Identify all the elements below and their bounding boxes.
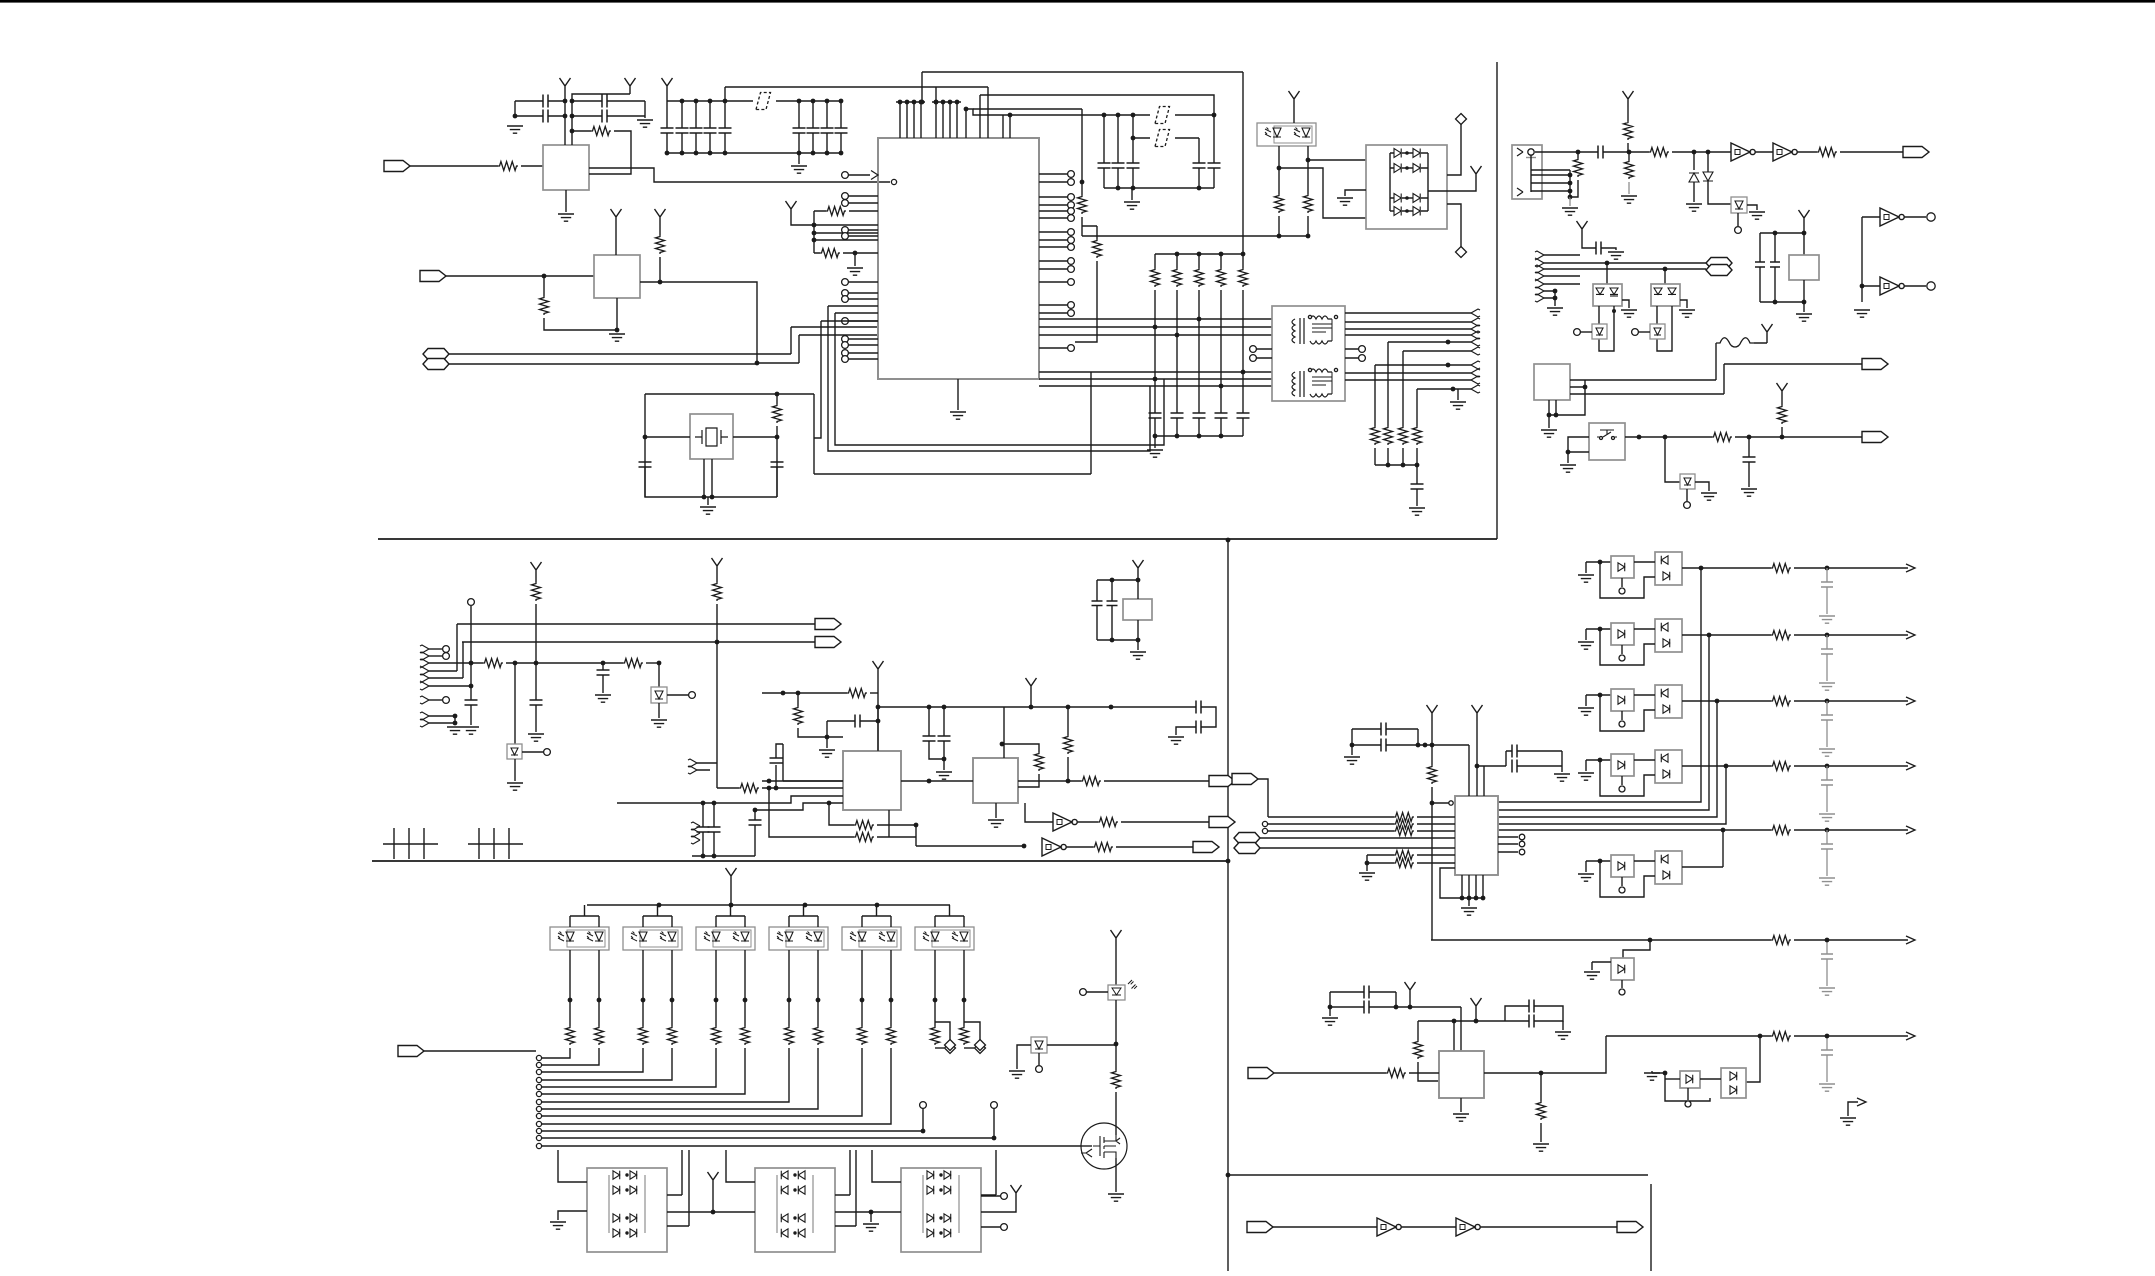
wire col9 a xyxy=(890,1000,892,1026)
wire row2 out xyxy=(1794,634,1908,636)
resistor RR4 xyxy=(1771,762,1791,771)
fork in row3 xyxy=(1535,265,1544,273)
junction c2a xyxy=(570,99,575,104)
junction c2b xyxy=(570,114,575,119)
wire vdd2 stem xyxy=(716,574,718,582)
antenna VCC10 xyxy=(1799,210,1810,226)
wire ri5 lead xyxy=(1409,1072,1439,1074)
wire bank col 6 xyxy=(798,101,800,128)
junction db12 xyxy=(793,1216,796,1219)
resistor R14 xyxy=(1239,268,1248,287)
wire ms f xyxy=(1840,151,1903,153)
pin bus a xyxy=(443,646,450,653)
ground GR3 xyxy=(1578,708,1594,715)
wire capB right v xyxy=(1417,729,1419,745)
wire r46 tail xyxy=(1781,427,1783,437)
capacitor C72 xyxy=(597,670,610,675)
junction md c xyxy=(469,661,474,666)
wire rescol bottom rail xyxy=(1155,435,1243,437)
junction or5 in xyxy=(1598,859,1603,864)
wire sw zener drop xyxy=(1665,437,1680,482)
wire u10 bottom stubs xyxy=(1549,400,1556,415)
resistor R77 xyxy=(814,1026,823,1045)
zener VR1 box xyxy=(1731,197,1747,213)
junction hc xyxy=(876,719,881,724)
wire rv3 tail xyxy=(1540,1123,1542,1142)
antenna VR-B xyxy=(1472,705,1483,721)
pin TPb xyxy=(1927,282,1935,290)
wire VCC4 stub xyxy=(659,225,661,235)
wire vr5 drop xyxy=(514,663,516,744)
wire capcol 2 low xyxy=(1117,168,1119,188)
crosshatch group line x468 xyxy=(468,843,523,845)
antenna VDD4 xyxy=(1026,678,1037,694)
wire cap group bottom rail xyxy=(1104,187,1214,189)
optocoupler PC3 xyxy=(623,927,682,950)
wire bf out b xyxy=(1904,285,1926,287)
ground GRow5 xyxy=(1819,988,1835,995)
diode D3 xyxy=(1394,164,1401,173)
wire rescol 2 b xyxy=(1176,290,1178,413)
wire pc6 leg b xyxy=(890,950,892,1000)
junction bank t9 xyxy=(839,99,844,104)
wire out1 drop xyxy=(429,624,457,671)
wire buf rail xyxy=(1861,217,1863,302)
junction row3 o xyxy=(1825,699,1830,704)
wire bank col 3 low xyxy=(695,133,697,153)
wire caprow3 stub xyxy=(1826,766,1828,780)
ground G21 xyxy=(1621,310,1637,317)
wire hcap right xyxy=(860,720,878,722)
junction u13 a xyxy=(1000,742,1005,747)
diode pair DPB2 xyxy=(1721,1068,1746,1098)
optocoupler PC6 xyxy=(842,927,901,950)
wire U3-L11 lead xyxy=(848,344,878,346)
wire tp col b stub xyxy=(993,1108,995,1138)
wire rescol gnd stub xyxy=(1154,436,1156,448)
ground G12 xyxy=(1450,402,1466,409)
fork To10 xyxy=(1471,385,1480,393)
wire vr4 bottom xyxy=(1686,489,1688,501)
wire bank col 1 xyxy=(666,101,668,128)
transformer T1 core xyxy=(1300,318,1304,344)
wire u12 in2 res xyxy=(717,787,739,789)
opto OR2 emitter box xyxy=(1611,623,1634,645)
wire u20 gnd stub xyxy=(1460,1098,1462,1112)
wire capcol 5 xyxy=(1213,115,1215,163)
wire vcc5 stem xyxy=(666,94,668,101)
wire vb2 stem xyxy=(981,1201,1016,1212)
wire u18 toppin c xyxy=(1483,766,1485,796)
wire c75 stub xyxy=(928,707,930,736)
zener VR2 box xyxy=(1592,324,1607,339)
ground GRow2 xyxy=(1819,749,1835,756)
wire vdd1 stem xyxy=(535,578,537,582)
wire top pin 1 xyxy=(899,102,901,138)
ground G24 xyxy=(1560,465,1576,472)
capacitor CU2 xyxy=(1512,760,1517,773)
opto OR1 emitter box xyxy=(1611,556,1634,578)
wire bank col 3 xyxy=(695,101,697,128)
antenna VM1 xyxy=(1111,930,1122,946)
junction dpb xyxy=(1663,1071,1668,1076)
junction to10 xyxy=(1451,387,1456,392)
pin vr2 xyxy=(1574,329,1581,336)
crystal X1 box xyxy=(690,414,733,459)
wire U3-R14 lead xyxy=(1039,312,1068,314)
resistor R60 xyxy=(854,821,874,830)
wire in4 line xyxy=(1367,855,1394,863)
ground G44 xyxy=(1108,1194,1124,1201)
junction bridge 1 xyxy=(1405,151,1409,155)
wire capcol 1 xyxy=(1103,115,1105,163)
wire opto6 drop xyxy=(1623,940,1650,958)
arrow row6 xyxy=(1906,936,1915,944)
fork bus y656 xyxy=(420,652,429,660)
pin in1 xyxy=(1262,828,1267,833)
wire U3-R8 lead xyxy=(1039,239,1068,241)
opto OR3 emitter box xyxy=(1611,689,1634,711)
wire rail1432 b xyxy=(1431,787,1433,940)
junction rb2 xyxy=(1197,434,1202,439)
ic U10 xyxy=(1534,364,1570,400)
wire Tv2 low xyxy=(1387,448,1389,465)
junction y115 b xyxy=(1102,113,1107,118)
wire res1418 xyxy=(1417,1021,1419,1040)
wire c81 tail xyxy=(754,825,756,856)
pin OR4 xyxy=(1619,786,1625,792)
junction c2c xyxy=(570,129,575,134)
pin vr3 xyxy=(1632,329,1639,336)
diode OR4f xyxy=(1663,770,1670,778)
buffer U14 xyxy=(1053,813,1077,831)
ground GR16 xyxy=(1359,873,1375,880)
resistor R50 xyxy=(532,582,541,601)
junction u18 t1 xyxy=(1475,764,1480,769)
diode DBD00b xyxy=(630,1171,637,1179)
wire pb a to bridge xyxy=(1308,159,1366,161)
wire capC2 l2 xyxy=(1505,1020,1529,1022)
capacitor C70 xyxy=(530,700,543,705)
wire row 255 xyxy=(1544,254,1580,256)
junction on divider low xyxy=(1226,1173,1231,1178)
diode OR2d xyxy=(1618,630,1625,638)
wire r55 stub xyxy=(1067,707,1069,735)
wire fan 4 xyxy=(541,1048,716,1087)
resistor R7 xyxy=(820,249,840,258)
junction on divider xyxy=(1226,538,1231,543)
antenna VLED xyxy=(726,868,737,884)
diode D21 xyxy=(1703,172,1713,181)
diamond TDa xyxy=(945,1043,956,1054)
wire U3-L2 lead xyxy=(848,195,878,197)
wire capcol 3 xyxy=(1132,115,1134,163)
junction row6 o xyxy=(1825,938,1830,943)
antenna VB-A xyxy=(1405,982,1416,998)
wire capcol 2 xyxy=(1117,115,1119,163)
wire mi stub xyxy=(697,763,717,770)
fork bus y678 xyxy=(420,674,429,682)
wire VCC3 to U2 xyxy=(615,225,617,255)
capacitor C10 xyxy=(1098,163,1111,168)
junction u10 g1 xyxy=(1547,413,1552,418)
resistor R71 xyxy=(595,1026,604,1045)
wire net TD4 xyxy=(1039,371,1272,373)
diode bridge DB3 xyxy=(755,1168,835,1252)
resistor RV3 xyxy=(1537,1101,1546,1120)
crosshatch tick 383-2 xyxy=(423,828,425,859)
wire bus v1 xyxy=(1498,568,1701,802)
junction in4 a xyxy=(753,808,758,813)
wire u16 bot stub xyxy=(1137,620,1139,640)
wire out2 drop xyxy=(429,642,463,678)
junction bank b3 xyxy=(708,151,713,156)
wire bank gnd stub xyxy=(798,153,800,164)
wire T res bottom rail xyxy=(1375,464,1417,466)
pin u18r0 xyxy=(1519,834,1525,840)
wire in4 lead2 xyxy=(1417,854,1455,856)
pin U3-L6 xyxy=(842,290,849,297)
divider wire vertical left of right section xyxy=(1227,540,1229,1271)
pin U3-L2 xyxy=(842,193,849,200)
transformer T1 primary coil xyxy=(1292,319,1295,343)
junction J1-197 xyxy=(1568,195,1573,200)
diode OR1d xyxy=(1618,563,1625,571)
junction u13 out xyxy=(1066,779,1071,784)
pin TPa xyxy=(1927,213,1935,221)
wire or5 gnd stub xyxy=(1586,861,1611,872)
junction top pin 9b xyxy=(934,100,939,105)
wire fan 3 xyxy=(541,1048,672,1080)
capacitor C61 xyxy=(1755,262,1765,267)
ground GR18 xyxy=(1322,1018,1338,1025)
wire col1 a xyxy=(598,1000,600,1026)
junction rb1 xyxy=(1175,434,1180,439)
junction tr b xyxy=(1401,463,1406,468)
wire rc4 down xyxy=(1075,261,1097,342)
wire fan 10 xyxy=(541,1130,923,1132)
wire or2 gnd stub xyxy=(1586,629,1611,640)
diode D2 xyxy=(1413,149,1420,158)
junction in2 b xyxy=(774,786,779,791)
wire R5 to xtal xyxy=(776,426,778,497)
buffer U5 xyxy=(1731,143,1755,161)
pin u18r2 xyxy=(1519,849,1525,855)
wire vdd1 col xyxy=(535,604,537,700)
junction or1 bus xyxy=(1699,566,1704,571)
pin sw a xyxy=(1600,437,1603,440)
junction cl d xyxy=(1773,300,1778,305)
wire main sig c xyxy=(1672,151,1731,153)
diode DPB1a xyxy=(1686,1075,1693,1083)
wire dpb link xyxy=(1700,1078,1721,1080)
junction bridge 3 xyxy=(1405,196,1409,200)
chevron into U3 xyxy=(871,171,878,180)
resistor R43 xyxy=(1624,121,1633,140)
wire U3-L5 lead xyxy=(848,235,878,237)
pin U3-L11 xyxy=(842,342,849,349)
diode DBD10a xyxy=(781,1171,788,1179)
diode DBD12b xyxy=(798,1214,805,1222)
opto OR4 emitter box xyxy=(1611,754,1634,776)
wire bank top rail xyxy=(667,100,841,102)
junction bridge 4 xyxy=(1405,209,1409,213)
junction or2 in xyxy=(1598,627,1603,632)
junction db03 xyxy=(625,1231,628,1234)
wire pc3 leg b xyxy=(671,950,673,1000)
wire r60 drop xyxy=(829,803,854,825)
resistor R41b xyxy=(1625,160,1634,179)
wire rescol 3 a xyxy=(1198,254,1200,268)
junction u10 xyxy=(1583,385,1588,390)
junction u16 a xyxy=(1110,578,1115,583)
capacitor CRow1 xyxy=(1821,649,1833,654)
wire xtal right xyxy=(776,394,778,404)
wire sw left gnd stub xyxy=(1567,452,1569,463)
junction capC r2 xyxy=(1408,1005,1413,1010)
resistor RR1 xyxy=(1771,564,1791,573)
wire vcc6 run xyxy=(791,211,814,253)
junction top pin 8 xyxy=(955,100,960,105)
wire pin x966 xyxy=(965,109,967,138)
wire capC2 bend xyxy=(1505,1006,1529,1021)
junction in4 b xyxy=(827,801,832,806)
capacitor C77 xyxy=(855,715,860,728)
junction top pin 3 xyxy=(912,100,917,105)
wire P3b run xyxy=(449,335,878,364)
junction capB xyxy=(1350,743,1355,748)
wire dp2 drop xyxy=(1664,269,1666,284)
pin T in a xyxy=(1250,346,1257,353)
pin fan 0 xyxy=(536,1055,541,1060)
capacitor C4 xyxy=(602,110,607,123)
wire pin rail left group xyxy=(896,101,925,103)
wire vdd2 col xyxy=(716,604,718,788)
junction td1 xyxy=(1197,317,1202,322)
junction db00 xyxy=(625,1173,628,1176)
pin OR5 xyxy=(1619,887,1625,893)
wire xtal gnd stub xyxy=(707,497,709,505)
wire R6 leads xyxy=(814,210,878,212)
pin T2 dot a xyxy=(1308,368,1311,371)
wire pin x988 xyxy=(987,87,989,138)
wire caprow3 tail xyxy=(1826,785,1828,812)
junction y1021 b xyxy=(1474,1019,1479,1024)
junction hcl xyxy=(825,735,830,740)
wire or2 link xyxy=(1634,628,1655,630)
antenna VCC9 xyxy=(1623,91,1634,107)
wire xtal box bottom stubs xyxy=(704,459,712,497)
wire u10 out2 xyxy=(1570,364,1862,394)
wire u18r0 lead xyxy=(1498,836,1518,838)
wire xtal bottom rail xyxy=(645,467,777,497)
junction n693 a xyxy=(781,691,786,696)
wire dp1 drop xyxy=(1606,263,1608,284)
connector P23 xyxy=(1209,817,1235,828)
junction bank b9 xyxy=(839,151,844,156)
wire U3-L8 lead xyxy=(848,281,878,283)
fork bus y663 xyxy=(420,659,429,667)
pin U3-L10 xyxy=(842,336,849,343)
wire caprow1 stub xyxy=(1826,635,1828,649)
junction top pin 4 xyxy=(919,100,924,105)
resistor R74 xyxy=(712,1026,721,1045)
arrow row2 xyxy=(1906,631,1915,639)
wire or1 loop xyxy=(1600,562,1655,598)
wire U3 pin y233 xyxy=(814,232,878,234)
resistor RV1 xyxy=(1428,765,1437,784)
connector P2 xyxy=(420,271,446,282)
ground G26 xyxy=(1741,489,1757,496)
resistor R10 xyxy=(1151,268,1160,287)
wire db4 out1 xyxy=(981,1150,996,1195)
switch SW1 box xyxy=(1589,423,1625,460)
wire c81 stub xyxy=(754,810,756,820)
pin T out a xyxy=(1359,346,1366,353)
diode DBD23a xyxy=(927,1229,934,1237)
wire To6 xyxy=(1403,350,1471,352)
junction cg b xyxy=(1131,186,1136,191)
opto OR4 detector box xyxy=(1655,750,1682,783)
junction rail1432 xyxy=(1430,801,1435,806)
capacitor C12 xyxy=(1127,163,1140,168)
wire or1 gnd stub xyxy=(1586,562,1611,573)
wire net693 b xyxy=(870,692,878,694)
junction n707 d xyxy=(1066,705,1071,710)
resistor R9 xyxy=(1093,239,1102,258)
crosshatch group line x383 xyxy=(383,843,438,845)
fork To1 xyxy=(1471,309,1480,317)
wire buf1 out xyxy=(1121,821,1209,823)
pin fan 1 xyxy=(536,1062,541,1067)
wire bus v4 xyxy=(1498,766,1726,824)
wire capC right v xyxy=(1395,992,1397,1007)
capacitor C2 xyxy=(602,95,607,108)
ground G9 xyxy=(950,412,966,419)
capacitor C32 xyxy=(821,128,834,133)
diode DBD03a xyxy=(613,1229,620,1237)
capacitor C40 xyxy=(1149,413,1162,418)
ground GR20 xyxy=(1533,1144,1549,1151)
wire cluster top rail xyxy=(1760,232,1804,234)
wire vbb stem xyxy=(1475,1014,1477,1021)
resistor RR7 xyxy=(1771,1032,1791,1041)
diode pair DPB1 xyxy=(1680,1071,1700,1088)
wire vled stem xyxy=(730,884,732,905)
resistor R30 xyxy=(1371,426,1380,445)
junction sw d xyxy=(1780,435,1785,440)
junction db13 xyxy=(793,1231,796,1234)
wire caprow4 stub xyxy=(1826,830,1828,844)
junction top pin 9 xyxy=(920,100,925,105)
junction u16 b xyxy=(1136,578,1141,583)
junction row1 o xyxy=(1825,566,1830,571)
pin T out b xyxy=(1359,355,1366,362)
fork bus y686 xyxy=(420,682,429,690)
junction md a xyxy=(534,661,539,666)
wire U3-L7 lead xyxy=(848,298,878,300)
wire pin x1003 xyxy=(1003,115,1010,138)
buffer U21 xyxy=(1377,1218,1401,1236)
ground GRow1 xyxy=(1819,683,1835,690)
junction y1021 a xyxy=(1452,1019,1457,1024)
pin U3-R8 xyxy=(1068,237,1075,244)
wire capB left xyxy=(1351,729,1353,755)
transformer T2 primary coil xyxy=(1292,372,1295,396)
pin U3-R11 xyxy=(1068,266,1075,273)
capacitor CRow2 xyxy=(1821,715,1833,720)
ground G41 xyxy=(550,1222,566,1229)
